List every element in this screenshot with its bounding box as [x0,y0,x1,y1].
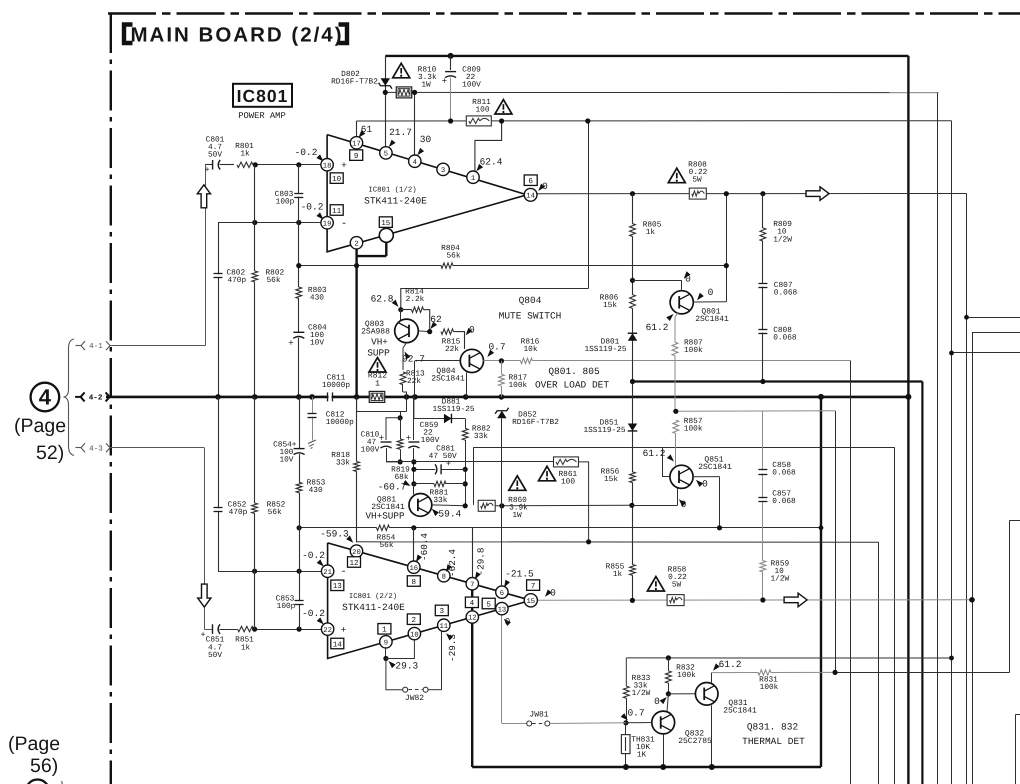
svg-text:-29.8: -29.8 [476,548,487,576]
svg-text:1k: 1k [613,570,623,579]
svg-text:11: 11 [332,208,342,216]
svg-text:IC801 (1/2): IC801 (1/2) [368,186,416,195]
svg-text:100p: 100p [277,602,296,611]
svg-text:6: 6 [500,590,504,598]
svg-text:4-2: 4-2 [89,394,103,403]
svg-text:0.068: 0.068 [772,497,796,506]
svg-text:47 50V: 47 50V [429,452,457,461]
svg-text:+: + [288,339,293,349]
svg-text:R851: R851 [235,636,254,645]
svg-text:2.2k: 2.2k [406,295,425,304]
svg-text:21.7: 21.7 [389,127,412,138]
svg-text:11: 11 [439,623,448,631]
svg-text:1SS119-25: 1SS119-25 [583,426,625,435]
svg-text:12: 12 [468,615,477,623]
svg-text:-0.2: -0.2 [302,608,325,619]
svg-text:Q804: Q804 [519,295,542,306]
svg-text:JW81: JW81 [529,711,548,720]
svg-text:0.7: 0.7 [627,707,644,718]
svg-text:1: 1 [471,175,475,183]
svg-text:430: 430 [309,486,323,495]
svg-text:17: 17 [352,141,361,149]
svg-text:1k: 1k [241,644,251,653]
svg-text:10000p: 10000p [322,381,350,390]
svg-text:SUPP: SUPP [367,348,390,359]
svg-text:0.068: 0.068 [772,469,796,478]
svg-text:IC801: IC801 [237,86,289,106]
svg-text:22k: 22k [445,345,459,354]
svg-text:0: 0 [702,479,708,490]
svg-text:100: 100 [475,106,489,115]
svg-text:52): 52) [36,442,64,464]
svg-text:56k: 56k [379,541,393,550]
svg-text:2SC1841: 2SC1841 [695,315,729,324]
svg-text:7: 7 [531,583,536,591]
svg-text:C851: C851 [206,636,225,645]
svg-text:470p: 470p [229,508,248,517]
svg-text:100k: 100k [760,683,779,692]
svg-text:13: 13 [333,582,343,591]
svg-text:15k: 15k [603,301,617,310]
svg-text:62.4: 62.4 [480,157,503,168]
svg-text:25C2785: 25C2785 [678,737,712,746]
svg-text:30: 30 [420,134,432,145]
svg-text:-60.7: -60.7 [378,482,407,493]
svg-text:4-1: 4-1 [89,343,103,351]
svg-text:470p: 470p [227,276,246,285]
svg-text:56k: 56k [267,276,281,285]
svg-text:56k: 56k [268,508,282,517]
svg-text:2: 2 [412,616,417,625]
svg-text:100: 100 [561,478,575,487]
svg-text:50V: 50V [208,651,222,660]
svg-text:1W: 1W [512,511,522,520]
svg-text:14: 14 [333,641,343,649]
svg-text:14: 14 [526,193,535,201]
svg-text:STK411-240E: STK411-240E [364,196,427,207]
svg-text:VH+: VH+ [371,337,388,348]
svg-text:10: 10 [332,175,342,184]
svg-text:100k: 100k [684,346,703,355]
svg-text:430: 430 [310,294,324,303]
svg-text:50V: 50V [208,151,222,160]
svg-text:10V: 10V [310,339,324,348]
svg-text:1/2W: 1/2W [632,689,651,698]
svg-text:2SC1841: 2SC1841 [431,375,465,384]
svg-text:4: 4 [470,600,475,608]
svg-text:9: 9 [384,640,388,648]
svg-text:9: 9 [354,152,359,161]
svg-text:25C1841: 25C1841 [723,707,757,716]
svg-text:100V: 100V [421,436,440,445]
svg-text:4: 4 [39,385,52,410]
svg-text:21: 21 [323,569,332,577]
svg-text:100p: 100p [276,198,295,207]
svg-text:VH+SUPP: VH+SUPP [365,510,404,521]
svg-text:100V: 100V [462,81,481,90]
svg-text:Q831. 832: Q831. 832 [747,722,799,733]
svg-text:1: 1 [375,380,380,389]
svg-text:8: 8 [442,573,446,581]
svg-text:3: 3 [440,607,445,616]
svg-text:100V: 100V [361,446,380,455]
svg-text:THERMAL DET: THERMAL DET [742,736,805,747]
svg-text:3: 3 [441,167,445,175]
svg-text:15k: 15k [604,475,618,484]
svg-text:13: 13 [498,606,507,614]
svg-text:0.068: 0.068 [773,334,797,343]
svg-text:6: 6 [528,177,533,186]
svg-text:POWER AMP: POWER AMP [238,111,286,121]
svg-text:4: 4 [413,159,417,167]
svg-text:1SS119-25: 1SS119-25 [584,345,626,354]
svg-text:+: + [204,165,209,175]
svg-text:15: 15 [381,220,391,228]
svg-text:20: 20 [352,549,361,557]
svg-text:-62.4: -62.4 [447,549,458,577]
svg-text:0.068: 0.068 [774,289,798,298]
svg-text:STK411-240E: STK411-240E [342,602,405,613]
svg-text:MAIN BOARD (2/4): MAIN BOARD (2/4) [130,23,343,46]
svg-text:-0.2: -0.2 [302,550,325,561]
svg-text:15: 15 [526,598,535,606]
svg-text:16: 16 [409,565,418,573]
svg-text:0: 0 [654,696,660,707]
svg-text:10: 10 [410,631,419,639]
svg-text:10k: 10k [523,345,537,354]
svg-text:RD16F-T7B2: RD16F-T7B2 [331,77,378,86]
svg-text:33k: 33k [336,459,350,468]
svg-text:4-3: 4-3 [89,444,103,453]
svg-text:62: 62 [430,314,442,325]
svg-text:+: + [442,77,447,87]
svg-text:1/2W: 1/2W [773,236,792,245]
svg-text:1: 1 [382,627,387,635]
svg-text:-0.2: -0.2 [295,147,318,158]
svg-text:RD16F-T7B2: RD16F-T7B2 [512,418,559,427]
svg-text:61.2: 61.2 [719,659,742,670]
svg-text:JW82: JW82 [405,694,424,703]
svg-text:-: - [341,218,347,230]
svg-text:5: 5 [486,601,491,609]
svg-text:2SC1841: 2SC1841 [698,463,732,472]
svg-text:56): 56) [30,755,58,777]
svg-text:-0.2: -0.2 [301,202,324,213]
svg-text:-59.3: -59.3 [320,529,349,540]
svg-text:10000p: 10000p [326,418,354,427]
svg-text:100k: 100k [677,671,696,680]
svg-text:22: 22 [323,627,332,635]
svg-text:1K: 1K [637,751,647,760]
svg-text:+: + [341,160,347,171]
svg-text:(Page: (Page [14,415,66,437]
svg-text:18: 18 [323,162,332,170]
svg-text:100k: 100k [509,381,528,390]
svg-text:100k: 100k [684,425,703,434]
svg-text:0: 0 [708,287,714,298]
svg-text:1k: 1k [646,228,656,237]
svg-text:7: 7 [470,581,474,589]
svg-text:5W: 5W [672,581,682,590]
svg-text:-: - [340,566,346,578]
svg-text:10V: 10V [279,456,293,465]
svg-text:Q801. 805: Q801. 805 [548,366,600,377]
svg-text:5: 5 [384,151,388,159]
svg-text:+: + [406,434,411,444]
svg-text:56k: 56k [446,252,460,261]
svg-text:(Page: (Page [8,733,60,755]
svg-text:1/2W: 1/2W [771,575,790,584]
svg-text:IC801 (2/2): IC801 (2/2) [349,592,397,601]
svg-text:19: 19 [323,221,332,229]
svg-text:62.8: 62.8 [371,294,394,305]
svg-text:-21.5: -21.5 [505,569,534,580]
svg-text:1W: 1W [421,81,431,90]
svg-text:+: + [379,434,384,444]
svg-text:2: 2 [354,241,358,249]
svg-text:10: 10 [777,228,787,237]
svg-text:2SA988: 2SA988 [361,327,390,336]
svg-text:61.2: 61.2 [646,322,669,333]
svg-text:8: 8 [412,578,417,587]
svg-text:+: + [200,630,205,640]
svg-text:MUTE SWITCH: MUTE SWITCH [499,311,562,322]
svg-text:33k: 33k [474,432,488,441]
svg-text:5W: 5W [692,176,702,185]
svg-text:OVER LOAD DET: OVER LOAD DET [535,380,609,391]
svg-text:+: + [341,625,347,636]
svg-text:1k: 1k [240,150,250,159]
svg-text:12: 12 [349,559,359,568]
svg-text:33k: 33k [433,496,447,505]
svg-text:1SS119-25: 1SS119-25 [432,405,474,414]
